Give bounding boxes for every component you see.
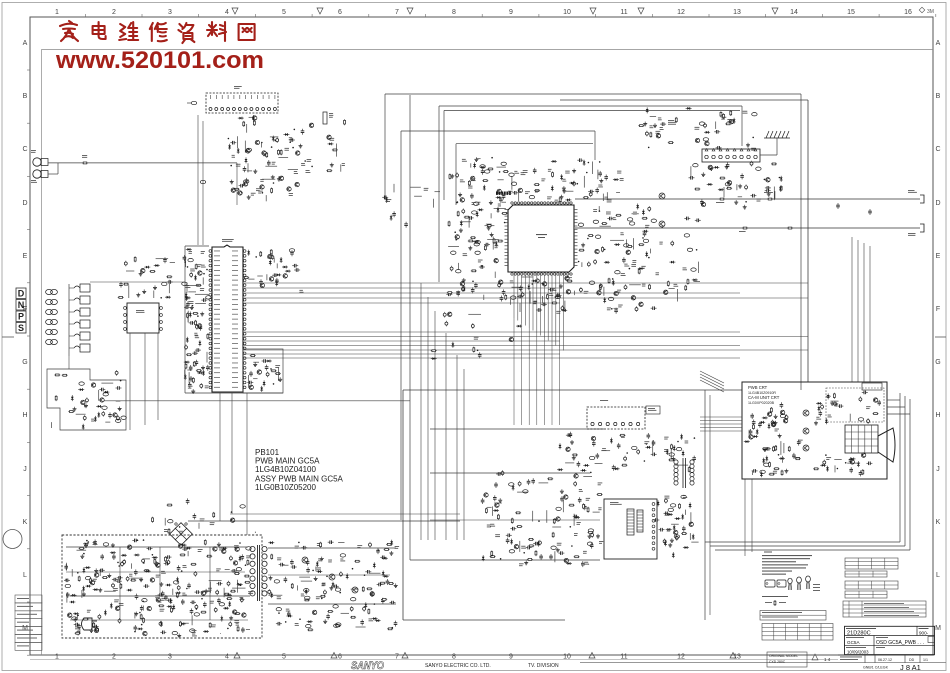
IC301 pin right (574, 225, 578, 227)
diode TD12 (110, 551, 116, 554)
ground (247, 195, 251, 199)
grid tick left (27, 122, 30, 124)
node junction (143, 539, 145, 541)
label (234, 544, 239, 547)
wire (393, 184, 395, 193)
diode XD2 (516, 325, 522, 328)
capacitor UC13 (306, 567, 310, 573)
resistor FR11 (484, 245, 486, 251)
IC201 pin right (243, 372, 246, 375)
label (474, 336, 479, 339)
node junction (118, 565, 120, 567)
ground (299, 144, 303, 148)
capacitor TC61 (112, 583, 115, 589)
wire (187, 314, 189, 323)
ground (778, 434, 782, 438)
package legend TO92 2 (797, 577, 802, 590)
connector pad (102, 406, 107, 409)
capacitor TC58 (123, 559, 126, 565)
transistor LQ4 (766, 178, 770, 182)
grid tick top (821, 14, 823, 17)
capacitor TC55 (203, 602, 207, 608)
capacitor JC8 (695, 219, 701, 223)
ground (560, 195, 564, 199)
svg-text:11: 11 (620, 9, 627, 16)
label (683, 267, 687, 270)
wire (581, 262, 583, 267)
wire bus (244, 292, 740, 294)
capacitor MC4 (752, 420, 756, 426)
wire bus vertical (463, 369, 465, 540)
transistor WQ1 (327, 135, 331, 139)
diode ED2 (263, 380, 266, 386)
label (87, 609, 91, 612)
ground (774, 421, 778, 425)
IC201 pin right (243, 347, 246, 350)
capacitor TC36 (134, 569, 138, 575)
transistor QQ1 (674, 530, 678, 534)
label (648, 407, 655, 410)
ground (556, 548, 560, 552)
node junction (206, 269, 208, 271)
wire (521, 276, 533, 278)
wire (519, 541, 521, 552)
revision mark triangle (232, 8, 238, 14)
wire (650, 115, 656, 117)
wire (698, 262, 700, 273)
IC301 pin top (534, 202, 536, 204)
ground (743, 205, 747, 209)
wire jumper to connector (187, 102, 191, 104)
resistor JR4 (685, 285, 687, 291)
grid tick top (368, 14, 370, 17)
IC301 pin right (574, 215, 578, 217)
diode UD8 (364, 602, 367, 608)
label (674, 283, 678, 286)
connector pad (643, 239, 648, 242)
wire (511, 176, 513, 189)
label (299, 289, 303, 292)
revision mark triangle (638, 8, 644, 14)
capacitor HC11 (599, 283, 602, 289)
IC301 pin right (574, 212, 578, 214)
connector pad (681, 495, 686, 498)
wire (487, 506, 492, 508)
label (656, 130, 661, 133)
capacitor KC3 (645, 131, 648, 137)
resistor HR1 (547, 294, 549, 300)
diode FD10 (473, 240, 479, 243)
diode VD3 (97, 412, 100, 418)
capacitor PC11 (569, 432, 573, 438)
capacitor MC9 (771, 420, 774, 426)
bead L1 (46, 289, 58, 294)
revision row (15, 619, 42, 627)
svg-text:A: A (936, 40, 941, 47)
wire (232, 587, 245, 589)
ground (320, 557, 324, 561)
note line (762, 564, 808, 565)
IC301 pin left (505, 212, 509, 214)
svg-text:L: L (23, 572, 27, 579)
capacitor TC24 (96, 627, 99, 633)
connector pad (188, 258, 193, 261)
diode UD14 (375, 619, 381, 622)
ground (599, 179, 603, 183)
diode UD10 (373, 562, 376, 568)
label (129, 573, 132, 576)
node junction (186, 588, 188, 590)
power supply isolation box (dashed) (62, 535, 262, 638)
psu rail 3 (70, 595, 250, 597)
label (641, 265, 645, 268)
package legend DIP outline 1 (765, 580, 775, 587)
wire (414, 195, 422, 197)
wire (629, 284, 641, 286)
capacitor UC24 (276, 622, 282, 626)
capacitor DC4 (272, 273, 278, 277)
capacitor UC25 (328, 540, 334, 544)
diode CD9 (186, 248, 192, 251)
transistor RQ2 (564, 495, 568, 499)
svg-text:5: 5 (282, 9, 286, 16)
grid tick top (765, 14, 767, 17)
node junction (570, 526, 572, 528)
IC301 pin bottom (547, 273, 549, 275)
ground (136, 293, 140, 297)
svg-text:3M: 3M (927, 9, 934, 15)
resistor HR2 (551, 302, 557, 304)
wire (278, 157, 288, 159)
diode TD1 (137, 628, 143, 631)
parts table bottom (762, 624, 833, 641)
ground (394, 583, 398, 587)
IC301 pin right (574, 228, 578, 230)
IC201 pin left (209, 284, 212, 287)
capacitor VC6 (85, 398, 88, 404)
connector pad (475, 251, 480, 254)
diode TD18 (172, 604, 175, 610)
wire crt vertical 4 (869, 246, 871, 382)
IC301 pin left (505, 242, 509, 244)
module outline box 3 (444, 110, 740, 112)
capacitor TC47 (132, 539, 138, 543)
connector pad (684, 234, 689, 237)
capacitor MC2 (758, 422, 762, 428)
table line v (773, 624, 775, 641)
wire (201, 591, 211, 593)
label (75, 626, 79, 629)
resistor FR6 (468, 240, 474, 242)
table line (871, 581, 873, 589)
wire (98, 390, 100, 401)
capacitor UC12 (390, 601, 396, 605)
label (185, 284, 189, 287)
label (216, 568, 221, 571)
resistor UR13 (304, 599, 310, 601)
ground (139, 578, 143, 582)
ground (153, 285, 157, 289)
node junction (77, 572, 79, 574)
node junction (262, 192, 264, 194)
resistor TR31 (78, 576, 80, 582)
capacitor JC3 (651, 306, 657, 310)
label (525, 190, 530, 193)
margin tag S (16, 323, 26, 334)
node junction (192, 305, 194, 307)
wire (186, 284, 199, 286)
svg-text:K: K (23, 519, 28, 526)
front panel outline (47, 369, 126, 430)
wire crt bus (700, 427, 742, 429)
connector pad (556, 507, 561, 510)
ground (763, 447, 767, 451)
capacitor TC30 (160, 631, 166, 635)
capacitor PC1 (617, 443, 621, 449)
diode MD2 (768, 423, 771, 429)
svg-text:3: 3 (168, 9, 172, 16)
capacitor FC10 (470, 193, 474, 199)
resistor TR10 (209, 622, 211, 628)
diode TD19 (176, 577, 179, 583)
resistor RR14 (583, 503, 585, 509)
psu sec rail 2 (268, 574, 390, 576)
resistor R803 (742, 227, 748, 229)
wire (187, 311, 189, 323)
IC201 pin right (243, 308, 246, 311)
label (456, 290, 460, 293)
pin name (214, 327, 220, 330)
pin name (214, 284, 220, 287)
ground (701, 172, 705, 176)
wire (356, 626, 366, 628)
diode SD3 (681, 514, 684, 520)
resistor KR2 (638, 125, 644, 127)
diode FD1 (483, 185, 486, 191)
wire (458, 263, 460, 270)
resistor JR5 (608, 278, 610, 284)
diode TD3 (69, 601, 75, 604)
wire ff chain vertical (68, 284, 70, 356)
wire (595, 463, 603, 465)
label (602, 447, 606, 450)
diode UD6 (286, 615, 292, 618)
wire (614, 466, 616, 470)
node junction (629, 268, 631, 270)
notes text block (764, 552, 772, 553)
wire (435, 191, 441, 193)
capacitor CC11 (200, 383, 203, 389)
capacitor UC27 (339, 571, 342, 577)
IC301 pin bottom (524, 273, 526, 275)
diode FD8 (497, 207, 500, 213)
PWB CRT board outline (742, 382, 887, 479)
node junction (275, 140, 277, 142)
capacitor HC12 (556, 294, 562, 298)
wire crt vertical 2 (857, 240, 859, 382)
transistor MQ4 (783, 419, 787, 423)
wire (351, 588, 359, 590)
node junction (139, 612, 141, 614)
diode VD4 (78, 388, 84, 391)
wire (834, 465, 836, 472)
pin name (214, 289, 220, 292)
IC301 pin top (524, 202, 526, 204)
resistor CR4 (187, 312, 189, 318)
IC301 pin right (574, 222, 578, 224)
capacitor OC7 (877, 400, 881, 406)
svg-text:E: E (23, 253, 28, 260)
ground (560, 489, 564, 493)
resistor FR14 (493, 238, 495, 244)
ground (474, 157, 478, 161)
wire bus (244, 353, 560, 355)
IC301 pin top (527, 202, 529, 204)
switch cell S6 (69, 344, 90, 352)
label (201, 250, 205, 253)
grid tick left (27, 548, 30, 550)
capacitor IC1 (607, 217, 613, 221)
wire (172, 589, 174, 595)
wire bus (244, 287, 560, 289)
diode UD2 (382, 571, 385, 577)
capacitor UC17 (268, 589, 271, 595)
IC301 pin bottom (531, 273, 533, 275)
wire (780, 441, 782, 455)
connector pad (451, 251, 456, 254)
capacitor UC2 (365, 570, 371, 574)
IC201 pin left (209, 269, 212, 272)
resistor TR9 (165, 556, 167, 562)
pin tick (262, 95, 264, 99)
diode QD3 (667, 513, 673, 516)
label (307, 158, 312, 161)
label CN102 (329, 112, 333, 115)
wire bus vertical (456, 355, 458, 540)
capacitor AC2 (289, 138, 295, 142)
resistor JR2 (638, 268, 640, 274)
resistor YR3 (168, 528, 170, 534)
transistor TQ15 (222, 549, 226, 553)
node junction (642, 237, 644, 239)
wire (101, 382, 113, 384)
transistor Q607 regulator (352, 587, 358, 593)
connector pad (691, 268, 696, 271)
label (764, 191, 773, 194)
flyback transformer T501 (674, 458, 694, 488)
diode RD8 (493, 509, 499, 512)
wire (715, 122, 717, 129)
node junction (825, 454, 827, 456)
diode TD5 (239, 556, 242, 562)
connector pad (725, 183, 730, 186)
switch cell S2 (69, 296, 90, 304)
transistor DQ1 (269, 277, 273, 281)
resistor TR3 (120, 583, 122, 589)
label (508, 190, 513, 193)
connector pad (632, 446, 637, 449)
wire (773, 187, 775, 201)
resistor R801 (719, 198, 725, 200)
capacitor EC3 (262, 359, 268, 363)
pin name (214, 362, 220, 365)
pin name (214, 347, 220, 350)
resistor KR3 (723, 113, 725, 119)
IC301 pin left (505, 251, 509, 253)
note line (762, 558, 810, 559)
node junction (778, 454, 780, 456)
diode PD7 (614, 467, 620, 470)
label (260, 178, 264, 181)
resistor FR8 (470, 237, 476, 239)
transistor JQ1 (664, 290, 668, 294)
capacitor FC6 (474, 283, 478, 289)
wire diagonal (700, 374, 724, 386)
CN801 pin mark (754, 149, 757, 151)
diode ND4 (850, 458, 856, 461)
svg-text:4: 4 (225, 9, 229, 16)
grid tick left (27, 282, 30, 284)
label (584, 561, 588, 564)
wire (134, 612, 136, 618)
diode OD1 (825, 418, 828, 424)
capacitor HC7 (541, 303, 547, 307)
connector pad (551, 546, 556, 549)
note line (762, 567, 806, 568)
capacitor RC8 (526, 546, 532, 550)
diode UD12 (383, 575, 389, 578)
resistor UR4 (307, 629, 313, 631)
capacitor DC7 (292, 264, 298, 268)
label (667, 528, 670, 531)
diode QD2 (666, 528, 672, 531)
ground (834, 402, 838, 406)
connector pad (752, 113, 757, 116)
node junction (764, 179, 766, 181)
diode FD5 (460, 220, 463, 226)
wire (490, 213, 492, 218)
IC301 pin bottom (514, 273, 516, 275)
capacitor MC11 (765, 447, 771, 451)
transistor Q606 regulator (329, 574, 335, 580)
resistor IR2 (601, 223, 607, 225)
resistor TR33 (180, 554, 186, 556)
capacitor FC15 (461, 286, 464, 292)
IC201 pin left (209, 313, 212, 316)
IC301 pin top (567, 202, 569, 204)
capacitor TC41 (231, 569, 237, 573)
wire (502, 201, 506, 203)
node junction (141, 624, 143, 626)
transistor Q901 (803, 410, 809, 416)
node junction (694, 437, 696, 439)
capacitor TC11 (155, 561, 158, 567)
node junction (285, 621, 287, 623)
IC201 pin left (209, 352, 212, 355)
capacitor TC21 (167, 559, 170, 565)
diode LD5 (718, 188, 724, 191)
capacitor PC7 (596, 453, 600, 459)
capacitor HC2 (614, 308, 618, 314)
capacitor RC10 (583, 504, 587, 510)
resistor FR18 (468, 180, 470, 186)
resistor RR11 (569, 504, 575, 506)
node junction (83, 553, 85, 555)
capacitor KC1 (704, 123, 707, 129)
resistor PR4 (688, 467, 690, 473)
transistor AQ1 (296, 151, 300, 155)
resistor ER2 (250, 355, 256, 357)
